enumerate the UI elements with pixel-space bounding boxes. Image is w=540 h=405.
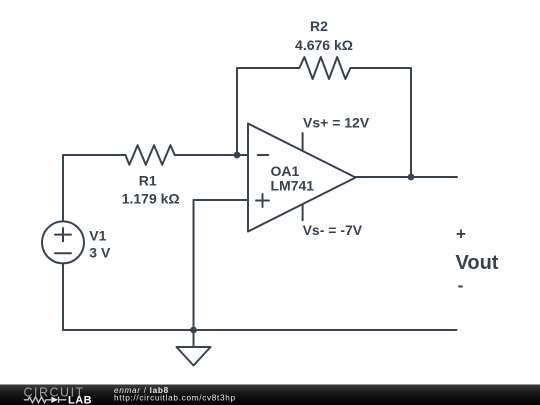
svg-text:http://circuitlab.com/cv8t3hp: http://circuitlab.com/cv8t3hp <box>114 394 236 403</box>
CircuitLab logo resistor squiggle and diode <box>24 397 67 403</box>
node: ground junction on bottom rail <box>190 327 197 334</box>
footer bar <box>0 384 540 405</box>
resistor R1 zigzag <box>125 145 174 165</box>
wire: op-amp output to right port <box>356 176 457 178</box>
resistor R2 zigzag <box>299 57 350 79</box>
wire: R2 right to output node vertical <box>350 68 411 177</box>
voltage source V1 symbol <box>42 221 84 263</box>
svg-text:LAB: LAB <box>68 394 92 405</box>
node A: junction of R1, R2, inverting input <box>234 152 241 159</box>
ground symbol <box>177 330 211 366</box>
node: output junction with feedback <box>408 174 415 181</box>
wire: V1 minus terminal down to bottom rail <box>62 263 64 330</box>
wire: R1 to inverting input of op-amp <box>175 154 248 156</box>
wire: bottom ground rail <box>63 329 457 331</box>
wire: feedback left vertical from node A up to top rail <box>237 68 299 155</box>
wire: V1 plus terminal up and right to R1 <box>63 155 125 222</box>
wire: non-inverting input left then down to ground rail <box>194 200 249 330</box>
op-amp OA1 triangle <box>248 124 356 232</box>
